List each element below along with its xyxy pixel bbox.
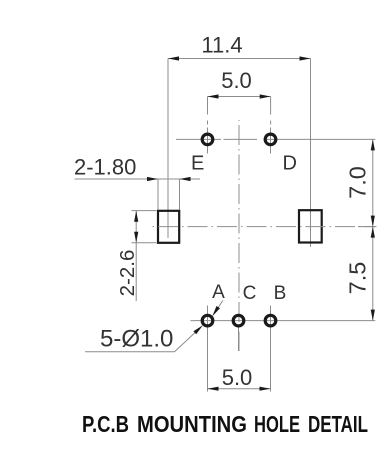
centerline segment between E and D <box>224 138 258 140</box>
svg-text:E: E <box>191 153 204 175</box>
svg-text:C: C <box>243 283 257 304</box>
hole A vertical centerline / extension to 5.0 dim <box>207 306 209 392</box>
extension line above hole D <box>270 97 272 115</box>
svg-text:2-1.80: 2-1.80 <box>74 155 136 180</box>
svg-text:MOUNTING: MOUNTING <box>137 411 247 437</box>
centerline cross hole E vertical <box>207 128 209 154</box>
dim 2-1.80 dimension line <box>75 177 201 181</box>
slot left (pad) <box>158 211 179 243</box>
dim 2-2.6 top extension line <box>132 210 157 212</box>
horizontal centerline <box>150 226 377 228</box>
dim 11.4 dimension line <box>168 33 311 61</box>
svg-text:B: B <box>274 283 287 304</box>
leader 5-dia1.0 horizontal line <box>85 351 175 353</box>
hole B <box>265 315 276 326</box>
label A leader <box>212 301 223 317</box>
dim 2-1.80 left extension line <box>157 179 159 210</box>
dim 2-2.6 bottom extension line <box>132 242 157 244</box>
dim 7.0/7.5 dimension line <box>371 139 375 320</box>
bottom row centerline horizontal (A C B row, extends to 7.5 dim) <box>191 320 376 322</box>
svg-text:P.C.B: P.C.B <box>82 411 129 437</box>
svg-text:11.4: 11.4 <box>201 33 242 58</box>
svg-text:A: A <box>212 282 225 303</box>
svg-text:7.0: 7.0 <box>345 166 371 199</box>
dim 5.0 top dimension line <box>208 68 271 99</box>
hole A <box>202 315 213 326</box>
centerline cross hole E horizontal <box>176 138 221 140</box>
dim 2-2.6 dimension line <box>134 211 138 301</box>
dim 2-1.80 right extension line <box>179 179 181 210</box>
slot right (pad) <box>299 210 322 242</box>
dim 5.0 bottom dimension line <box>208 365 271 391</box>
svg-text:HOLE: HOLE <box>254 411 300 437</box>
vertical centerline <box>238 120 240 351</box>
svg-text:5-Ø1.0: 5-Ø1.0 <box>100 326 173 353</box>
hole B vertical centerline / extension to 5.0 dim <box>270 306 272 392</box>
leader 5-dia1.0 diagonal line <box>175 325 203 351</box>
dim 11.4 right extension line <box>310 59 312 248</box>
extension line above hole E <box>207 97 209 115</box>
hole C <box>233 315 244 326</box>
svg-text:5.0: 5.0 <box>222 365 253 390</box>
svg-text:5.0: 5.0 <box>221 68 252 93</box>
extension line hole D to 7.0 dim <box>264 138 376 140</box>
dim 11.4 left extension line <box>167 59 169 239</box>
hole C vertical below <box>238 327 240 351</box>
hole D <box>265 134 276 145</box>
svg-text:D: D <box>283 153 297 175</box>
svg-text:2-2.6: 2-2.6 <box>116 250 139 297</box>
svg-text:DETAIL: DETAIL <box>308 411 368 437</box>
svg-text:7.5: 7.5 <box>345 262 371 295</box>
centerline extension to dim line <box>358 226 375 228</box>
hole E <box>202 134 213 145</box>
centerline cross hole D vertical <box>270 128 272 154</box>
